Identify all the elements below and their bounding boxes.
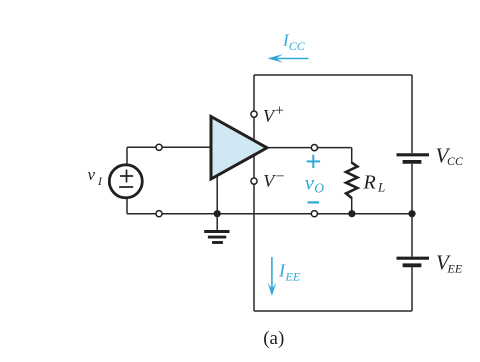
svg-text:R: R (363, 172, 376, 194)
svg-text:V: V (263, 106, 276, 126)
svg-text:(a): (a) (263, 328, 284, 349)
svg-text:v: v (88, 165, 96, 184)
svg-text:+: + (275, 102, 284, 119)
svg-text:V: V (263, 171, 276, 191)
svg-text:CC: CC (447, 154, 464, 168)
svg-text:EE: EE (447, 262, 463, 276)
svg-text:CC: CC (289, 39, 306, 53)
svg-text:L: L (377, 180, 385, 195)
svg-text:O: O (314, 181, 324, 196)
svg-text:I: I (97, 176, 103, 188)
svg-text:−: − (276, 168, 285, 185)
svg-text:EE: EE (285, 270, 301, 284)
